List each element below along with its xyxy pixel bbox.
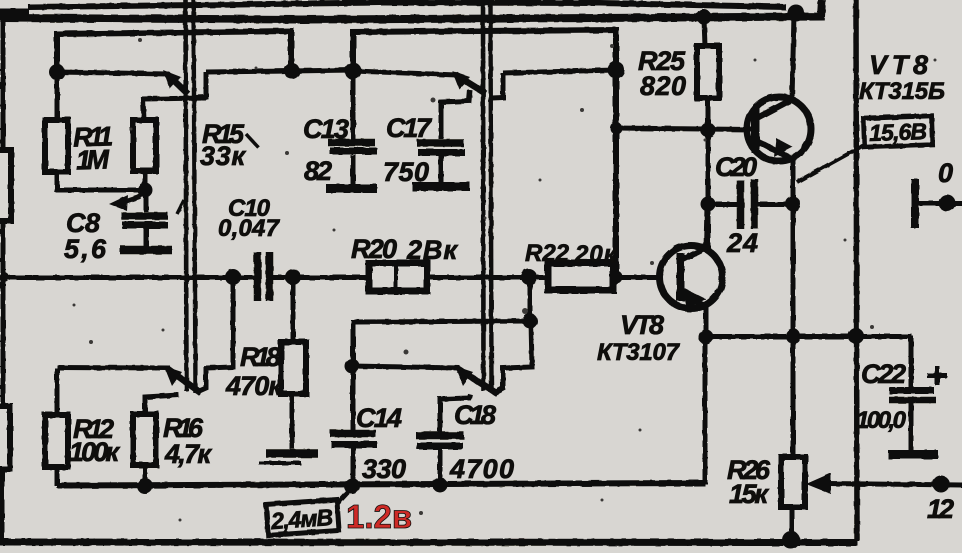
capacitor C8 lower stem and end bar [144,228,149,247]
resistor R26 (with wiper arrow) [781,457,805,507]
capacitor C10 plates (series) [254,252,262,301]
svg-text:24: 24 [726,228,758,258]
capacitor C22 lower stem and end bar [909,403,914,450]
svg-text:С18: С18 [454,400,496,430]
node A dot R11 top [49,64,65,80]
resistor R20 [369,263,427,291]
svg-text:4,7к: 4,7к [164,439,212,469]
svg-text:5,6: 5,6 [64,234,107,264]
svg-text:15к: 15к [729,479,769,509]
transistor VT8 KT3107 circle [660,246,723,309]
wire collector up to rail [792,14,794,100]
svg-text:33к: 33к [200,141,246,171]
wire top-left bar stub [0,9,29,17]
node dot C18 bottom [433,478,448,493]
capacitor C22 plates [889,387,934,394]
svg-text:VT8: VT8 [620,310,664,340]
svg-text:С17: С17 [386,113,433,143]
terminal 0 bar [911,179,919,228]
wire R16 bottom stem [143,465,148,486]
capacitor C13 plates [328,139,375,147]
wire y322 from C14 to feedback column [353,321,530,324]
svg-text:12: 12 [927,494,954,524]
wire output to terminal 12 with wiper arrow at R26 [828,484,962,486]
node dot C20 right [786,197,801,212]
node dot C14 bottom [344,478,360,494]
wire y72 from step to loop corner [206,71,291,72]
resistor R25 [697,46,719,98]
node dot R25 bottom [701,123,716,138]
wire R11 bottom to R13 bottom [57,172,145,190]
wire R20 to R22 [427,275,548,280]
svg-text:470к: 470к [225,371,283,401]
wire R25 bottom to VT8 KT3107 collector [706,98,711,248]
capacitor C13 stem from node [351,71,356,139]
resistor R12 [45,415,68,467]
node dot C13 top [345,63,362,80]
svg-text:330: 330 [362,454,406,484]
node dot at left edge [0,272,9,282]
resistor R11 [45,120,68,172]
wire y72 from R11 node to emitter arrow of VT5 [57,72,168,74]
wire y72 from step to base column node [503,70,616,73]
svg-text:1.2в: 1.2в [346,498,412,535]
wire y366 from R12 to VT5 lower arrow [57,365,170,371]
wire C20 right lead [758,202,793,207]
transistor VT5 long bar B [194,0,196,393]
wire second top rail with corner exiting top edge [0,0,822,20]
wire C20 left lead [708,202,737,207]
transistor VT7 emitter arrow into bar A [456,75,485,93]
wire loop over R11 [57,31,291,72]
node dot R18 top [285,269,301,285]
capacitor C18 hook to VT7 bottom node [440,394,470,432]
node dot C20 left [701,197,716,212]
wire step from bar B to y72 wire right [492,73,503,98]
node dot on rail at collector of VT8 KT315 [788,5,805,22]
node dot y336 at R26 column [786,329,801,344]
wire between C10 and R20 [270,275,370,280]
wire main signal line y277 left of C10 [3,275,254,280]
svg-text:2Вк: 2Вк [406,235,458,265]
wire base line y128 to VT8 KT315 [616,128,752,130]
wire bottom common rail [0,539,858,547]
resistor R18 lower stem and end bar [290,394,295,449]
wire R26 column from C20 node down to R26 [791,204,796,457]
wire R12 bottom stem [55,467,60,486]
node dot base column y128 [610,122,622,134]
node dot C14 tap [345,359,360,374]
svg-text:КТ3107: КТ3107 [597,339,681,366]
wire R26 bottom stem [790,507,795,541]
capacitor C18 plates [416,432,464,440]
wire from step node down to VT5 bar step [197,280,233,392]
svg-text:КТ315Б: КТ315Б [859,78,945,105]
node dot terminal 0 [939,195,956,212]
wire y366 from C14 tap to VT7 lower arrow [353,366,460,368]
transistor VT7 lower emitter arrow [458,369,498,394]
wire C22 corner down [909,336,914,388]
svg-text:750: 750 [383,157,429,187]
transistor VT7 long bar B [491,0,492,392]
svg-text:2,4мВ: 2,4мВ [269,504,334,534]
svg-text:R18: R18 [240,342,281,372]
capacitor C18 lower stem [438,449,443,485]
svg-text:100,0: 100,0 [856,407,907,434]
capacitor C8 trimmer arrow [124,191,145,202]
svg-text:1М: 1М [76,144,111,175]
transistor VT8 KT3107 emitter stroke with inward arrow [682,295,707,307]
wire R16 hook to VT5 bottom node [145,395,179,414]
node dot y336 at right rail [848,328,864,344]
node dot base column top [608,62,625,79]
node dot terminal 12 [933,476,950,493]
svg-text:20к: 20к [574,241,618,268]
node dot feedback junction [521,269,537,285]
transistor VT8 KT315B base bar [752,107,760,153]
wire R12 top stem [55,368,60,415]
scan speckles [73,38,937,522]
label pointer R15 [246,134,258,147]
wire y336 emitter to C22 corner [705,334,912,339]
svg-text:R22: R22 [525,240,570,267]
svg-text:С20: С20 [715,152,757,182]
svg-text:0: 0 [938,158,953,188]
transistor VT8 KT3107 base bar [677,253,685,301]
node dot loop right corner [284,63,300,79]
wire hook from bar B region down to second resistor top [143,98,206,120]
capacitor C14 lower stem [351,448,356,485]
transistor VT8 KT315B collector stroke [757,100,791,118]
capacitor C17 top hook to VT7 emitter node [441,90,470,139]
capacitor C22 polarity plus [927,366,947,385]
node dot y336 at emitter [699,330,714,345]
svg-text:С22: С22 [861,359,906,389]
transistor VT8 KT3107 collector stroke [682,248,706,260]
capacitor C13 lower stem and end bar [351,155,356,184]
transistor VT8 KT315B circle [747,97,811,161]
resistor R13 (partner of R11) [133,120,156,171]
wire lower common line y484 [57,483,705,486]
wire top supply rail (cut by scan edge) [28,3,786,8]
wire loop over C13 C17 to base column [353,30,616,277]
wire y72 from C13 node to emitter arrow of VT7 [353,71,457,75]
capacitor C17 plates [417,139,464,147]
capacitor C8 plates [121,212,168,220]
capacitor C20 plates [737,180,745,229]
wire KT3107 collector up [706,207,707,248]
svg-text:С14: С14 [356,403,402,433]
callout line for 15,6V box [797,144,866,182]
capacitor C17 lower stem and end bar [439,156,444,182]
capacitor C14 plates [330,430,376,438]
wire R13 bottom stem [143,171,148,190]
wire emitter down to C20 right node [791,159,796,205]
node dot base column bottom [610,271,623,284]
wire R22 to VT8 base [613,275,661,280]
wire R25 top stem [704,19,705,46]
resistor R18 upper stem [291,280,296,342]
svg-text:15,6В: 15,6В [869,118,928,146]
resistor R16 [133,414,156,465]
svg-text:R20: R20 [351,234,397,264]
node dot on rail at R25 [697,10,712,25]
capacitor C8 stem [144,190,149,212]
wire feedback step down to VT7 bar B [494,321,532,393]
transistor VT5 emitter arrow into bar A [167,74,188,94]
wire KT3107 emitter down [704,307,709,338]
node dot R16 bottom [137,478,153,494]
node dot y322 [523,314,538,329]
transistor VT7 long bar A [481,0,486,391]
stray mark near bar A [177,200,184,214]
wire corner up to VT8 KT3107 emitter [703,337,708,484]
resistor R22 [548,263,613,290]
wire y71 between loop corners [291,70,353,71]
resistor R18 [281,342,306,394]
transistor VT5 long bar A [186,0,187,391]
wire step from bar B to y72 wire [196,72,206,98]
measurement box 15,6V [864,116,933,147]
wire terminal 0 [919,201,962,206]
svg-text:820: 820 [640,71,686,101]
resistor clipped at left edge (lower) [0,406,10,469]
transistor VT8 KT315B emitter stroke with arrow [757,141,792,159]
wire R11 top stem [55,77,60,120]
node dot step-down junction [225,269,241,285]
svg-text:0,047: 0,047 [218,215,281,242]
svg-text:С13: С13 [303,114,349,144]
node dot R26 bottom on common line [782,531,800,549]
wire feedback column from main wire down [528,280,533,321]
svg-text:82: 82 [304,156,332,186]
svg-text:100к: 100к [69,437,120,467]
wire right vertical rail [856,0,857,541]
capacitor C14 stem from y322 [351,322,356,430]
node dot C8 top [138,183,153,198]
svg-text:VT8: VT8 [869,50,928,80]
wire left scan-edge vertical [2,9,3,541]
transistor VT5 lower emitter arrow [168,369,201,393]
resistor clipped at left edge (upper) [0,150,11,221]
measurement box 2,4mV [338,488,352,503]
